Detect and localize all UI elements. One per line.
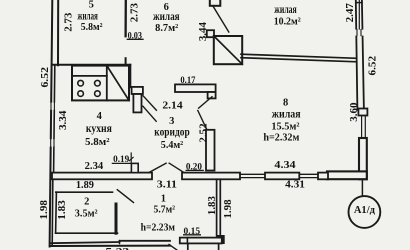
room8 south window 1 [240, 173, 265, 175]
svg-text:коридор: коридор [154, 125, 190, 139]
room 6/7 wall top cap [210, 0, 221, 6]
room8 south window 2 [299, 173, 318, 175]
svg-text:2.73: 2.73 [129, 3, 141, 23]
right wall top cap tick [356, 2, 362, 4]
svg-text:5.8м²: 5.8м² [85, 136, 110, 148]
SE corner horizontal bar [327, 171, 367, 179]
0.17 bar right step [208, 92, 216, 98]
svg-text:0.17: 0.17 [180, 76, 195, 86]
porch right lower line [218, 243, 220, 250]
svg-text:0.20: 0.20 [186, 163, 202, 173]
porch corner block [217, 236, 225, 244]
svg-text:0.19: 0.19 [113, 155, 129, 165]
svg-text:10.2м²: 10.2м² [274, 15, 302, 27]
entrance door swing diagonal [169, 245, 177, 250]
kitchen/corridor partition upper line [129, 65, 131, 87]
stove hearth divider [72, 75, 107, 77]
dim 0.15 underline [183, 234, 201, 236]
svg-text:5.7м²: 5.7м² [154, 203, 176, 215]
room 2 inner box top [56, 191, 113, 193]
stove 6/7 diagonal [214, 36, 242, 64]
0.19 extension line [130, 153, 132, 163]
SE corner vertical bar [359, 138, 367, 179]
svg-text:6.52: 6.52 [366, 55, 378, 75]
0.19 tick [129, 157, 133, 160]
room 1/2 divider wall [115, 204, 118, 233]
svg-text:2.73: 2.73 [63, 12, 75, 32]
kitchen stove block outer rect [72, 66, 129, 101]
svg-text:А1/д: А1/д [354, 204, 376, 216]
kitchen door swing upper diagonal [143, 96, 156, 111]
right outer wall inner line [362, 0, 364, 110]
svg-text:5.23: 5.23 [105, 246, 130, 250]
svg-text:5.8м²: 5.8м² [81, 21, 103, 33]
corridor-room8 wall bar [206, 130, 215, 171]
0.20 dimension underline [186, 169, 203, 171]
south outer wall inner line left part [51, 242, 120, 243]
stove 6/7 small box [207, 30, 214, 37]
svg-text:2: 2 [84, 197, 89, 208]
svg-text:6.52: 6.52 [39, 67, 51, 88]
south outer wall outer line [50, 245, 170, 247]
svg-text:5.4м²: 5.4м² [161, 139, 184, 151]
wall between rooms 5 and 6 [124, 0, 127, 36]
corridor south door diagonal left [149, 163, 166, 172]
svg-text:жилая: жилая [272, 107, 301, 121]
room8 door swing diagonal [198, 111, 207, 130]
right wall middle line (top) [358, 0, 360, 30]
right outer wall outer line [356, 0, 358, 110]
0.19 wall stub [131, 163, 138, 172]
burner 3 [78, 91, 84, 97]
room 8 north wall upper line [241, 54, 357, 58]
corridor west jamb body [133, 94, 141, 112]
right wall window lines [361, 116, 363, 139]
room 2 inner box bottom [56, 232, 118, 234]
south outer wall inner line right part [120, 240, 171, 242]
svg-text:8.7м²: 8.7м² [155, 22, 179, 34]
svg-text:3.11: 3.11 [157, 178, 177, 190]
right wall window break [354, 30, 364, 36]
burner 4 [95, 91, 101, 97]
porch bar divider [186, 238, 188, 244]
left outer wall, inner line kitchen section [54, 65, 55, 173]
svg-text:1.83: 1.83 [56, 200, 68, 220]
room 8 north wall lower line [241, 58, 357, 62]
svg-text:2.47: 2.47 [344, 3, 356, 23]
svg-text:жилая: жилая [77, 8, 98, 22]
svg-text:2.52: 2.52 [197, 123, 209, 143]
left outer wall, inner line room2 section [51, 180, 54, 246]
porch left lower line [187, 243, 189, 250]
svg-text:4.31: 4.31 [285, 178, 305, 190]
svg-text:1.83: 1.83 [206, 196, 218, 215]
room8 south wall bar 3 [318, 173, 328, 180]
svg-text:3.60: 3.60 [348, 102, 360, 122]
room 2 inner box left [55, 192, 58, 233]
stove 6/7 big box [214, 36, 242, 64]
svg-text:0.03: 0.03 [128, 32, 143, 42]
burner 2 [95, 80, 101, 86]
room8 south wall bar 2 [265, 173, 299, 180]
0.19 dimension underline [112, 162, 130, 164]
0.17 wall bar [175, 84, 216, 92]
porch bar [180, 238, 222, 244]
rooms 6/7 door swing diagonal [213, 6, 229, 32]
corridor west jamb lip [132, 87, 143, 94]
corridor south door diagonal right [169, 163, 183, 172]
south outer wall step [119, 241, 121, 244]
svg-text:1.89: 1.89 [76, 179, 95, 191]
svg-text:3.44: 3.44 [197, 22, 209, 42]
A1/d circle [349, 196, 381, 228]
wall stub above kitchen wall [125, 58, 127, 65]
left outer wall, inner line (room 5) [57, 0, 59, 65]
0.03 dimension underline [127, 38, 143, 40]
svg-text:3.34: 3.34 [57, 110, 69, 130]
corridor NE door diagonal [199, 97, 212, 109]
left wall window break 2 [49, 139, 56, 146]
svg-text:1.98: 1.98 [38, 200, 50, 220]
stove inner vertical divider [106, 66, 108, 101]
svg-text:4.34: 4.34 [274, 159, 296, 171]
stove diagonal [107, 66, 129, 101]
line to A1/d circle [361, 179, 363, 196]
kitchen top wall [52, 64, 130, 66]
svg-text:3.5м²: 3.5м² [75, 208, 98, 220]
svg-text:жилая: жилая [274, 2, 297, 16]
burner 1 [78, 80, 84, 86]
room 1 east wall inner line [219, 179, 221, 235]
room 2 door swing diagonal [117, 190, 133, 203]
svg-text:h=2.32м: h=2.32м [263, 131, 299, 143]
kitchen/corridor south wall [52, 173, 152, 180]
svg-text:2.34: 2.34 [85, 160, 104, 172]
svg-text:1.98: 1.98 [222, 199, 234, 218]
0.17 dimension underline [180, 83, 196, 85]
svg-text:кухня: кухня [86, 121, 112, 135]
svg-text:2.14: 2.14 [162, 100, 183, 112]
room1/room8 south wall piece [182, 173, 240, 180]
kitchen door swing lower diagonal [143, 106, 156, 121]
right wall sill bar [358, 109, 367, 116]
left outer wall, outer line [50, 0, 53, 247]
left wall window break 1 [50, 103, 57, 110]
room 1 east wall outer line [216, 179, 218, 235]
svg-text:h=2.23м: h=2.23м [141, 222, 176, 234]
